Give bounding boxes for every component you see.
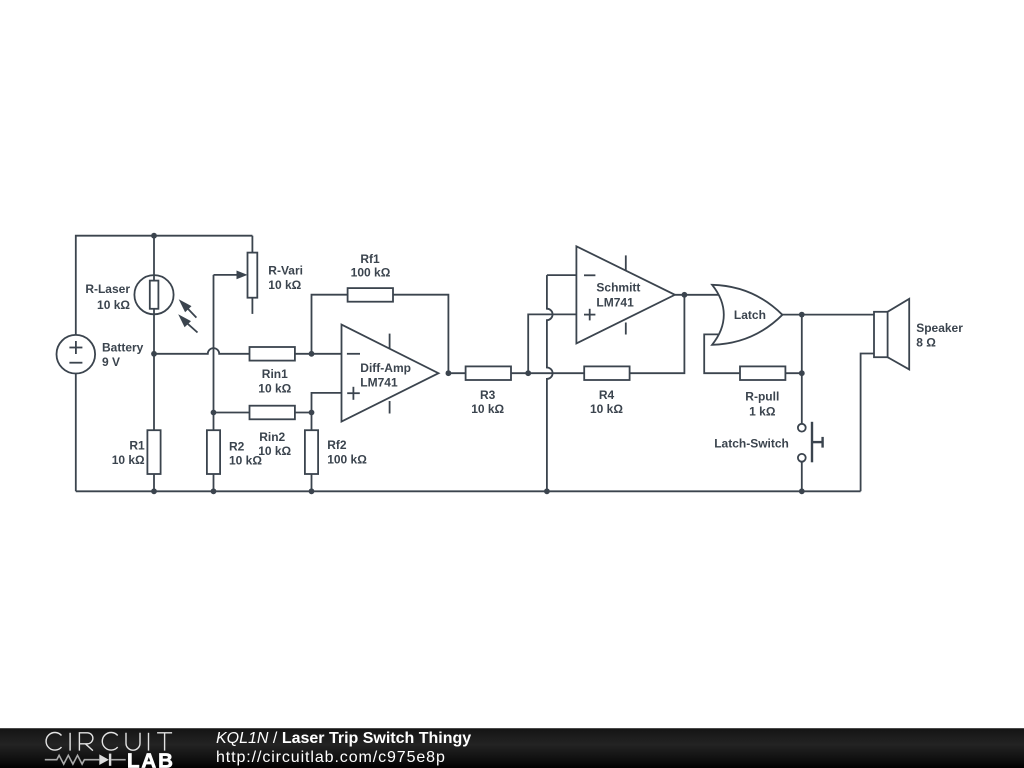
junction node Rf2 bottom: [309, 488, 315, 494]
wire R-pull right lead: [785, 372, 801, 374]
junction node R-pull right: [799, 370, 805, 376]
wire Rin2 left lead: [214, 412, 250, 414]
junction node latch output: [799, 312, 805, 318]
logic gate Latch (OR): [712, 285, 782, 345]
svg-text:R4: R4: [599, 388, 615, 402]
svg-text:10 kΩ: 10 kΩ: [590, 402, 623, 416]
resistor R3: [466, 366, 511, 380]
svg-text:9 V: 9 V: [102, 355, 120, 369]
svg-text:Rin1: Rin1: [262, 367, 288, 381]
wire top rail: [76, 236, 253, 335]
wire bottom rail: [76, 490, 861, 492]
svg-text:R3: R3: [480, 388, 496, 402]
junction node op-amp output: [446, 370, 452, 376]
resistor R1: [147, 354, 160, 492]
junction node inverting input: [309, 351, 315, 357]
svg-text:10 kΩ: 10 kΩ: [258, 381, 291, 395]
svg-text:Rf2: Rf2: [327, 438, 347, 452]
svg-text:Rin2: Rin2: [259, 430, 285, 444]
wire schmitt output to latch: [675, 294, 719, 296]
svg-text:R-Vari: R-Vari: [268, 264, 303, 278]
svg-text:LAB: LAB: [127, 749, 175, 768]
CircuitLab logo: [0, 728, 200, 768]
switch Latch-Switch: [798, 422, 823, 492]
junction node R2 bottom: [211, 488, 217, 494]
wire latch lower input elbow: [704, 334, 739, 373]
svg-text:Battery: Battery: [102, 340, 144, 354]
svg-text:R1: R1: [129, 438, 145, 452]
svg-text:Speaker: Speaker: [916, 321, 963, 335]
svg-text:10 kΩ: 10 kΩ: [229, 453, 262, 467]
potentiometer R-Vari: [214, 236, 258, 314]
wire output to R3: [448, 372, 465, 374]
svg-text:10 kΩ: 10 kΩ: [268, 278, 301, 292]
resistor R4: [584, 366, 629, 380]
photoresistor R-Laser: [134, 275, 197, 332]
wire Rin1 to inverting input: [295, 353, 342, 355]
svg-text:10 kΩ: 10 kΩ: [258, 444, 291, 458]
svg-text:10 kΩ: 10 kΩ: [97, 298, 130, 312]
wire mid rail with hop over wiper wire: [154, 348, 250, 354]
junction node schmitt feed bottom: [544, 488, 550, 494]
resistor Rf1: [348, 288, 393, 302]
resistor Rf2: [305, 413, 318, 492]
svg-text:Latch: Latch: [734, 308, 766, 322]
wire Rin2 right lead: [295, 412, 312, 414]
op-amp U2 Schmitt: [576, 246, 675, 343]
svg-text:100 kΩ: 100 kΩ: [327, 452, 367, 466]
junction node Rin2 right: [309, 410, 315, 416]
wire feedback left leg: [312, 295, 348, 354]
svg-text:R-pull: R-pull: [745, 390, 779, 404]
wire schmitt minus feed with hops: [547, 275, 577, 491]
wire + input leg: [312, 393, 342, 413]
svg-text:8 Ω: 8 Ω: [916, 336, 936, 350]
wire R3 junction to schmitt plus: [528, 314, 576, 373]
svg-text:10 kΩ: 10 kΩ: [112, 453, 145, 467]
resistor R-pull: [740, 366, 785, 380]
wire wiper vertical: [213, 275, 215, 413]
svg-text:Rf1: Rf1: [360, 252, 380, 266]
speaker SPKR1: [861, 299, 910, 492]
wire feedback right leg: [393, 295, 448, 374]
svg-text:10 kΩ: 10 kΩ: [471, 402, 504, 416]
svg-text:R-Laser: R-Laser: [85, 282, 130, 296]
svg-text:Diff-Amp: Diff-Amp: [360, 361, 411, 375]
footer bar: [0, 728, 1024, 768]
svg-text:LM741: LM741: [360, 375, 398, 389]
junction node R-Laser bottom: [151, 351, 157, 357]
wire R-Laser branch: [153, 236, 155, 281]
battery V1: [57, 335, 96, 491]
wire latch output to speaker: [782, 314, 874, 316]
op-amp U1 Diff-Amp: [342, 325, 439, 422]
wire R4 to schmitt output: [630, 295, 685, 373]
wire latch junction down: [801, 315, 803, 424]
svg-text:1 kΩ: 1 kΩ: [749, 404, 776, 418]
resistor Rin1: [250, 347, 295, 361]
junction node top of R-Laser: [151, 233, 157, 239]
junction node switch bottom: [799, 488, 805, 494]
svg-text:100 kΩ: 100 kΩ: [351, 266, 391, 280]
junction node R3 right: [525, 370, 531, 376]
svg-text:Schmitt: Schmitt: [596, 281, 640, 295]
resistor Rin2: [250, 406, 295, 420]
svg-text:Latch-Switch: Latch-Switch: [714, 437, 789, 451]
junction node Rin2 left: [211, 410, 217, 416]
resistor R2: [207, 413, 220, 492]
svg-text:LM741: LM741: [596, 295, 634, 309]
junction node schmitt output: [682, 292, 688, 298]
junction node R1 bottom: [151, 488, 157, 494]
svg-text:R2: R2: [229, 439, 245, 453]
wire R3 to R4: [511, 372, 584, 374]
